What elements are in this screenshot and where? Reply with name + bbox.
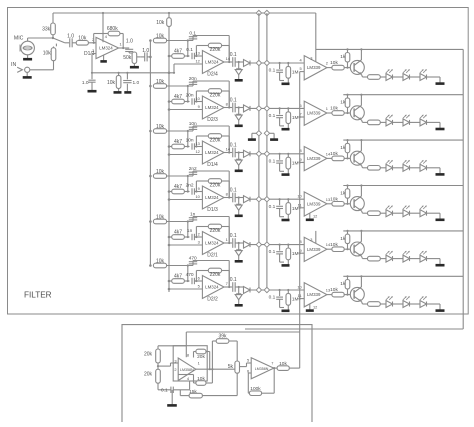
op-amp N2 LM358 <box>251 358 274 379</box>
wire pin 3 bias <box>92 54 96 73</box>
svg-text:0.1: 0.1 <box>230 277 237 283</box>
node rail 1 stub <box>256 131 261 136</box>
wire emitter row 3 <box>362 165 368 167</box>
svg-text:20k: 20k <box>144 371 153 377</box>
label 10k divider <box>156 20 165 26</box>
label pin 5 stage 6 <box>198 283 200 288</box>
label 0.1 series cap stage 1 <box>186 47 193 53</box>
resistor 4k7 stage 2 <box>168 99 190 104</box>
svg-text:4k7: 4k7 <box>174 139 182 145</box>
svg-text:680k: 680k <box>107 26 118 32</box>
wire 5k bottom <box>236 373 238 395</box>
svg-text:D1/4: D1/4 <box>207 162 218 168</box>
diode series stage 2 <box>244 105 251 112</box>
label 1M row 1 <box>292 70 299 76</box>
capacitor 0.1 output stage 2 <box>233 103 244 113</box>
resistor 220k stage 6 <box>208 268 221 273</box>
wire node A stage 5 <box>187 220 189 237</box>
resistor 1M row 2 <box>286 107 291 128</box>
ground under IN jack <box>23 72 32 77</box>
capacitor 2n2 series stage 4 <box>187 188 203 194</box>
switch contact stub <box>55 44 57 47</box>
node V+ rail left junction <box>256 10 261 15</box>
label 4k7 stage 6 <box>174 274 182 280</box>
label pin 12 row 6 <box>313 304 317 309</box>
svg-text:0.1: 0.1 <box>186 47 193 53</box>
wire LED box separator 4 <box>343 230 463 232</box>
ground pin 12 row 4 <box>306 219 314 222</box>
label pin 1 N1 <box>198 361 200 366</box>
label pin 1 <box>120 42 122 47</box>
svg-text:0.1: 0.1 <box>269 295 276 301</box>
resistor 220k stage 1 <box>208 43 221 48</box>
resistor 1k pullup row 3 <box>345 139 350 158</box>
comparator LM339 row 1 <box>304 56 327 80</box>
label 1k row 6 <box>340 281 346 287</box>
resistor 10k stage 5 <box>149 219 167 224</box>
diode series stage 1 <box>244 60 251 67</box>
wire resistor to LED1 row 3 <box>380 167 386 169</box>
comparator LM339 row 4 <box>304 192 327 216</box>
wire 220k right stage 6 <box>222 271 230 288</box>
wire LED3 to ground row 1 <box>427 77 441 83</box>
svg-text:LM339: LM339 <box>307 65 321 70</box>
label 10k bias <box>107 80 116 86</box>
ground peak detector row 2 <box>282 128 290 131</box>
wire diode to comparator stage 1 <box>250 62 304 64</box>
node rail 2 junction row 4 <box>264 197 269 202</box>
svg-text:12: 12 <box>313 214 317 219</box>
label 0.1 bottom <box>161 388 168 394</box>
node ladder row 5 <box>299 252 301 254</box>
svg-text:9: 9 <box>198 186 200 191</box>
label pin 6 stage 6 <box>198 275 200 280</box>
node rail 2 stub <box>264 131 269 136</box>
wire resistor to LED1 row 1 <box>380 76 386 78</box>
label 10k stage 1 <box>156 33 165 39</box>
label pin 10 stage 2 <box>195 96 200 101</box>
resistor 10k stage 4 <box>149 174 167 179</box>
label pin 14 row 3 <box>326 151 331 156</box>
label 1.0 output cap <box>126 38 133 44</box>
label IN <box>11 62 16 68</box>
LED 3 row 3 <box>420 160 427 171</box>
label pin 4 <box>105 34 108 39</box>
node rail 1 junction row 4 <box>256 197 261 202</box>
wire emitter row 4 <box>362 211 368 213</box>
label pin 4 N1 <box>187 376 190 381</box>
svg-text:2: 2 <box>198 231 200 236</box>
label pin 6 row 2 <box>300 103 302 108</box>
ground under 1.0 bias <box>124 91 131 94</box>
wire cap to resistor <box>72 42 76 44</box>
svg-text:1M: 1M <box>292 251 299 257</box>
svg-text:5: 5 <box>300 66 302 71</box>
transistor Q5 <box>350 242 364 257</box>
label 1M row 2 <box>292 115 299 121</box>
wire bias rail horizontal <box>91 72 174 74</box>
label 0.1 output stage 4 <box>230 187 237 193</box>
wire LED3 to ground row 2 <box>427 122 441 128</box>
capacitor 0.1 series stage 1 <box>187 53 203 59</box>
svg-text:8: 8 <box>226 102 228 107</box>
svg-text:1.0: 1.0 <box>67 34 74 40</box>
svg-text:0.1: 0.1 <box>230 52 237 58</box>
svg-text:1k: 1k <box>340 281 346 287</box>
diode series stage 5 <box>244 241 251 248</box>
label 4k7 stage 4 <box>174 184 182 190</box>
capacitor 1n series stage 5 <box>187 234 203 240</box>
svg-text:10k: 10k <box>330 106 338 112</box>
op-amp D1/3 <box>202 186 224 209</box>
capacitor 0.1 peak row 1 <box>276 62 284 81</box>
svg-text:33k: 33k <box>42 27 51 33</box>
ground pin 12 row 6 <box>306 309 314 312</box>
wire IN to resistor <box>30 61 54 70</box>
label 10k stage 5 <box>156 214 165 220</box>
resistor 10k bias <box>116 72 121 92</box>
label pin 2 <box>92 37 94 42</box>
label pin 3 <box>92 48 94 53</box>
op-amp D1/4 <box>202 141 224 164</box>
resistor 10k output row 5 <box>327 247 354 252</box>
svg-text:LM324: LM324 <box>205 150 219 155</box>
label 1k row 3 <box>340 145 346 151</box>
svg-text:LM358N: LM358N <box>180 368 194 372</box>
label 10k stage 2 <box>156 79 165 85</box>
svg-text:3: 3 <box>198 239 200 244</box>
svg-text:1.0: 1.0 <box>142 48 149 54</box>
label 10k stage 4 <box>156 169 165 175</box>
wire stage top stage 6 <box>167 265 193 267</box>
resistor 1k pullup row 5 <box>345 230 350 249</box>
svg-text:D2/4: D2/4 <box>207 71 218 77</box>
label pin 7 stage 6 <box>226 281 228 286</box>
svg-text:10k: 10k <box>156 33 165 39</box>
wire feedback top stage 4 <box>193 171 229 198</box>
wire LED3 to ground row 6 <box>427 304 441 310</box>
label pin 2 row 1 <box>326 61 328 66</box>
label D2/2 <box>207 296 218 302</box>
svg-text:13: 13 <box>195 50 199 55</box>
resistor 1M row 3 <box>286 153 291 174</box>
svg-text:0.1: 0.1 <box>230 187 237 193</box>
label 10k stage 6 <box>156 258 165 264</box>
wire LED1 to LED2 row 4 <box>393 212 404 214</box>
label pin 14 stage 1 <box>226 56 231 61</box>
svg-text:1: 1 <box>326 106 328 111</box>
svg-text:12: 12 <box>195 149 199 154</box>
wire LED box top <box>316 48 463 50</box>
LED 2 row 6 <box>403 296 410 307</box>
comparator LM339 row 2 <box>304 101 327 125</box>
resistor 20k top <box>156 346 187 363</box>
resistor 10k input <box>51 48 56 61</box>
resistor 1k pullup row 4 <box>345 184 350 203</box>
label pin 12 row 4 <box>313 214 317 219</box>
label pin 7 row 2 <box>300 112 302 117</box>
wire resistor to LED1 row 5 <box>380 258 386 260</box>
svg-text:20k: 20k <box>144 351 153 357</box>
wire mid rail 2 <box>266 13 268 290</box>
wire diode to comparator stage 4 <box>250 198 304 200</box>
label FILTER <box>24 291 52 300</box>
ground under diode stage 2 <box>235 125 243 128</box>
ground peak detector row 5 <box>282 264 290 267</box>
wire output to 39k <box>212 341 216 369</box>
svg-text:1M: 1M <box>292 70 299 76</box>
potentiometer 50k <box>132 52 140 64</box>
LED 3 row 2 <box>420 115 427 126</box>
label 0.1 peak row 1 <box>269 68 276 74</box>
node ladder row 2 <box>299 116 301 118</box>
resistor 220k stage 5 <box>208 224 221 229</box>
wire collector row 4 <box>360 184 362 196</box>
label 0.1 output stage 6 <box>230 277 237 283</box>
svg-text:LM339: LM339 <box>307 292 321 297</box>
label 0.1 output stage 2 <box>230 97 237 103</box>
svg-text:1: 1 <box>120 42 122 47</box>
label pin 4 row 1 <box>300 57 303 62</box>
svg-text:5k: 5k <box>228 364 234 370</box>
wire 220k right stage 3 <box>222 136 230 153</box>
resistor LED chain row 4 <box>368 211 381 216</box>
wire V+ bottom section <box>186 332 299 346</box>
wire feedback 680k left <box>94 34 108 43</box>
op-amp D2/3 <box>202 96 224 119</box>
svg-text:LM324: LM324 <box>99 46 113 51</box>
connector IN jack <box>17 67 30 72</box>
label pin 8 row 5 <box>300 239 302 244</box>
wire cap to ground <box>172 390 189 405</box>
svg-text:1.0: 1.0 <box>82 80 89 86</box>
svg-text:0.1: 0.1 <box>230 142 237 148</box>
wire emitter row 6 <box>362 302 368 304</box>
wire preamp V+ pin 4 <box>102 12 104 42</box>
wire resistor to pin 2 <box>88 42 96 44</box>
label 0.1 peak row 3 <box>269 158 276 164</box>
wire pin 6 stub <box>248 373 251 393</box>
svg-text:39k: 39k <box>218 334 227 340</box>
capacitor 1n feedback stage 5 <box>189 217 197 222</box>
wire collector row 5 <box>360 230 362 242</box>
wire emitter row 5 <box>362 256 368 258</box>
resistor LED chain row 1 <box>368 75 381 80</box>
svg-text:220k: 220k <box>210 183 221 189</box>
svg-text:1M: 1M <box>292 115 299 121</box>
capacitor 0.1 peak row 6 <box>276 289 284 308</box>
label 10k N2 <box>279 361 287 367</box>
svg-text:1.0: 1.0 <box>133 80 140 86</box>
ground LED chain row 4 <box>436 219 445 222</box>
node V+ rail right junction <box>264 10 269 15</box>
wire LED3 to ground row 3 <box>427 168 441 174</box>
label pin 9 row 5 <box>300 248 302 253</box>
wire output N1 <box>196 368 235 370</box>
wire diode to comparator stage 2 <box>250 107 304 109</box>
svg-text:0.1: 0.1 <box>269 249 276 255</box>
op-amp D2/1 <box>202 232 224 255</box>
node rail 1 junction row 5 <box>256 242 261 247</box>
resistor 33k <box>51 13 56 38</box>
wire resistor to LED1 row 2 <box>380 121 386 123</box>
svg-text:10k: 10k <box>330 196 338 202</box>
wire + input bias stage 3 <box>168 153 203 156</box>
svg-text:20k: 20k <box>197 354 205 360</box>
svg-text:LM339: LM339 <box>307 111 321 116</box>
wire output stage 3 <box>224 151 232 153</box>
resistor 10k preamp <box>76 41 88 46</box>
wire + input bias stage 4 <box>168 198 203 201</box>
wire preamp gnd pin 11 <box>103 55 105 60</box>
transistor Q6 <box>350 287 364 302</box>
svg-text:2n2: 2n2 <box>186 183 194 189</box>
LED 1 row 1 <box>386 69 393 80</box>
label 470 series cap stage 6 <box>186 272 194 278</box>
svg-text:2: 2 <box>326 61 328 66</box>
wire LED box separator 3 <box>343 185 463 187</box>
svg-text:1: 1 <box>226 237 228 242</box>
svg-text:1.0: 1.0 <box>126 38 133 44</box>
ground under mic <box>23 55 32 59</box>
capacitor 0.1 output stage 6 <box>233 282 244 292</box>
wire + input bias stage 6 <box>168 288 203 291</box>
wire feedback top stage 5 <box>193 217 229 244</box>
ground LED chain row 2 <box>436 128 445 131</box>
svg-text:8: 8 <box>226 192 228 197</box>
wire - input row 5 <box>300 252 305 254</box>
LED 2 row 1 <box>403 69 410 80</box>
label 1k row 4 <box>340 190 346 196</box>
svg-text:15k: 15k <box>189 389 197 395</box>
svg-text:1k: 1k <box>340 190 346 196</box>
svg-text:10k: 10k <box>156 124 165 130</box>
label pin 3 stage 5 <box>198 239 200 244</box>
label 39k <box>218 334 227 340</box>
diode series stage 3 <box>244 150 251 157</box>
resistor 1M row 6 <box>286 289 291 310</box>
wire - input row 2 <box>300 116 305 118</box>
diode series stage 4 <box>244 196 251 203</box>
node ladder row 3 <box>299 161 301 163</box>
svg-text:5: 5 <box>247 358 249 363</box>
label pin 5 N2 <box>247 358 249 363</box>
label 10n feedback cap stage 3 <box>189 121 197 127</box>
transistor Q3 <box>350 151 364 166</box>
ground peak detector row 3 <box>282 173 290 176</box>
svg-text:FILTER: FILTER <box>24 291 52 300</box>
label pin 12 stage 3 <box>195 149 199 154</box>
wire node A stage 3 <box>187 130 189 147</box>
capacitor 20n feedback stage 2 <box>189 81 197 86</box>
capacitor 470 series stage 6 <box>187 278 203 284</box>
capacitor 1.0 output <box>125 49 133 53</box>
resistor 4k7 stage 1 <box>168 54 190 59</box>
ground LED chain row 6 <box>436 309 445 312</box>
wire 220k left stage 5 <box>195 227 208 239</box>
resistor 1M row 5 <box>286 244 291 265</box>
label 20k bottom <box>144 371 153 377</box>
LED 2 row 3 <box>403 160 410 171</box>
label pin 9 stage 4 <box>198 186 200 191</box>
resistor 1M row 4 <box>286 198 291 219</box>
resistor 1k pullup row 1 <box>345 48 350 67</box>
svg-text:3: 3 <box>92 48 94 53</box>
label 680k <box>107 26 118 32</box>
label 0.1 peak row 2 <box>269 113 276 119</box>
ground peak detector row 4 <box>282 219 290 222</box>
wire mic to switch <box>28 38 53 41</box>
label pin 3 row 5 <box>310 237 312 242</box>
capacitor 0.1 peak row 3 <box>276 153 284 172</box>
label 1.0 bias cap <box>133 80 140 86</box>
wire rail ground stub right <box>267 133 274 138</box>
wire preamp output <box>119 47 130 49</box>
label 1M row 4 <box>292 206 299 212</box>
comparator LM339 row 6 <box>304 283 327 307</box>
label 10k output row 3 <box>330 151 338 157</box>
diode to ground stage 6 <box>235 286 242 304</box>
label pin 8 N1 <box>187 353 189 358</box>
wire LED1 to LED2 row 6 <box>393 303 404 305</box>
LED 2 row 4 <box>403 206 410 217</box>
resistor 4k7 stage 4 <box>168 189 190 194</box>
resistor 680k <box>108 31 120 36</box>
node rail 1 junction row 6 <box>256 287 261 292</box>
svg-text:LM324: LM324 <box>205 60 219 65</box>
label pin 1 row 2 <box>326 106 328 111</box>
ground bottom section <box>167 404 177 407</box>
capacitor 0.1 output stage 3 <box>233 148 244 158</box>
op-amp D2/2 <box>202 276 224 299</box>
resistor LED chain row 5 <box>368 256 381 261</box>
wire node A stage 2 <box>187 85 189 102</box>
label pin 10 row 6 <box>297 284 302 289</box>
wire output stage 6 <box>224 286 232 288</box>
label 10n series cap stage 3 <box>186 138 194 144</box>
label 220k stage 2 <box>210 93 221 99</box>
svg-text:100k: 100k <box>250 386 261 392</box>
svg-text:10k: 10k <box>156 258 165 264</box>
ground under diode stage 5 <box>235 260 243 263</box>
wire switch to cap <box>65 42 70 44</box>
LED 3 row 1 <box>420 69 427 80</box>
wire output stage 1 <box>224 61 232 63</box>
node rail 2 junction row 2 <box>264 106 269 111</box>
label pin 5 row 1 <box>300 66 302 71</box>
wire stage top stage 5 <box>167 221 193 223</box>
label 0.1 peak row 6 <box>269 295 276 301</box>
capacitor 0.1 bottom <box>171 387 173 393</box>
label pin 8 stage 4 <box>226 192 228 197</box>
ground rail stub right <box>270 138 278 141</box>
svg-text:20n: 20n <box>186 93 194 99</box>
svg-text:3: 3 <box>310 237 312 242</box>
label 33k <box>42 27 51 33</box>
transistor Q2 <box>350 105 364 120</box>
node rail 1 junction row 3 <box>256 151 261 156</box>
wire 220k left stage 2 <box>195 91 208 103</box>
svg-text:13: 13 <box>195 141 199 146</box>
svg-text:LM339: LM339 <box>307 156 321 161</box>
label 0.1 output stage 5 <box>230 233 237 239</box>
wire feedback top stage 1 <box>193 36 229 63</box>
label 15k <box>189 389 197 395</box>
svg-text:220k: 220k <box>210 47 221 53</box>
svg-text:4k7: 4k7 <box>174 184 182 190</box>
label 1M row 5 <box>292 251 299 257</box>
capacitor 1.0 wiper <box>140 52 150 61</box>
